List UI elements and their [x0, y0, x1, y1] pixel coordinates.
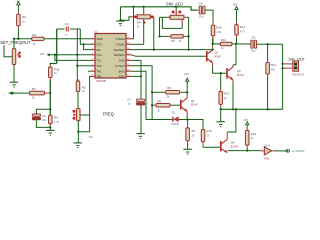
wire R5 column vertical — [76, 29, 78, 81]
svg-text:4069: 4069 — [264, 157, 270, 160]
wire terminal to R3 — [13, 92, 30, 94]
pin 6 stub U1 — [91, 65, 95, 67]
wire C3 left vertical — [56, 29, 58, 64]
pin 1 stub U1 — [91, 38, 95, 40]
svg-text:R7: R7 — [192, 129, 196, 133]
node Q4 coll bus — [235, 108, 237, 110]
svg-text:U1: U1 — [94, 30, 98, 34]
wire C6 top branch — [36, 109, 50, 114]
svg-text:D1: D1 — [172, 110, 176, 114]
resistor R35 — [49, 63, 51, 65]
svg-text:2k: 2k — [166, 95, 169, 99]
svg-text:U1:A: U1:A — [264, 143, 270, 147]
potentiometer RV3 sin-adj — [160, 16, 171, 18]
wire pin8 to freq loop — [78, 76, 91, 131]
svg-text:MO: MO — [96, 48, 100, 52]
wire R35 to R3 node — [49, 80, 51, 115]
wire U1:A output — [272, 150, 275, 152]
wire pin10 to D1 row — [131, 71, 146, 119]
ground GND5 — [136, 133, 144, 135]
wire riser to pin5 — [55, 55, 91, 61]
svg-text:BC547: BC547 — [237, 74, 245, 77]
pin 5 stub U1 — [91, 59, 95, 61]
resistor R3 horizontal — [30, 91, 45, 95]
resistor R4 horizontal — [32, 37, 44, 41]
svg-text:10u: 10u — [199, 14, 204, 18]
wire D1 row right to R15 — [187, 120, 203, 130]
wire R5 to pot — [77, 92, 79, 109]
svg-text:R2: R2 — [22, 15, 26, 19]
wire bus riser to pin16 — [131, 7, 134, 39]
svg-text:TC1: TC1 — [96, 59, 102, 63]
resistor R2 — [17, 7, 19, 12]
svg-text:4.7k: 4.7k — [240, 29, 246, 33]
svg-text:R11: R11 — [221, 38, 226, 42]
wire Q1 collector to +5V — [186, 95, 188, 98]
svg-text:SIN_ADJ: SIN_ADJ — [166, 2, 183, 7]
node conn pin1 — [281, 63, 283, 65]
pin 4 stub U1 — [91, 54, 95, 56]
wire pin9 to C7 column — [131, 75, 141, 77]
svg-text:2k: 2k — [157, 108, 160, 112]
wire conn lead2 — [283, 67, 293, 69]
capacitor C3 — [65, 27, 67, 32]
svg-text:R4: R4 — [54, 116, 58, 120]
node pot loop — [77, 131, 79, 133]
svg-text:4.7k: 4.7k — [54, 120, 60, 124]
svg-text:R3: R3 — [32, 87, 36, 91]
ground GND1 — [10, 81, 18, 83]
wire pin11 to R6R8 column — [131, 66, 152, 120]
svg-text:R14: R14 — [271, 63, 277, 67]
svg-text:2k: 2k — [178, 39, 181, 43]
ground GND4 — [74, 142, 82, 144]
svg-text:1k: 1k — [251, 136, 254, 140]
svg-text:1u: 1u — [128, 102, 132, 106]
diode D1 — [172, 117, 174, 122]
svg-text:2k: 2k — [137, 25, 140, 29]
node bus ground — [220, 108, 222, 110]
svg-text:1k: 1k — [54, 71, 58, 75]
potentiometer RV4 freq — [77, 108, 79, 110]
wire R11 to C9 — [232, 43, 251, 45]
wire Q1 emitter down — [186, 112, 188, 116]
pin 8 stub U1 — [91, 75, 95, 77]
resistor R9 horizontal — [160, 35, 169, 37]
wire C6 bottom branch — [36, 120, 50, 127]
pin 12 stub U1 — [126, 59, 131, 61]
wire SET_FREQOUT loop — [4, 45, 12, 57]
svg-text:1k: 1k — [206, 134, 209, 138]
node bus riser — [132, 6, 134, 8]
pin 16 stub U1 — [126, 38, 131, 40]
svg-text:R21: R21 — [251, 132, 257, 136]
wire D1 to junction — [179, 119, 188, 121]
svg-text:+2.4GHZ(D: +2.4GHZ(D — [292, 150, 305, 153]
node R14 top — [266, 43, 268, 45]
capacitor C6 electrolytic — [32, 114, 40, 116]
wire pin13 to Q2 base — [131, 55, 136, 57]
svg-text:SYMA1: SYMA1 — [116, 43, 126, 47]
ground GND7 — [217, 121, 225, 123]
svg-text:FSKI: FSKI — [119, 75, 125, 79]
wire C9 right — [257, 43, 283, 45]
wire R3 right lead — [44, 92, 50, 94]
wire pot column from bus — [13, 39, 15, 49]
wire conn lead1 — [283, 63, 293, 65]
wire C3 right vertical to pin2 — [80, 29, 91, 44]
svg-text:50k: 50k — [271, 68, 276, 72]
svg-text:MA: MA — [137, 21, 141, 25]
resistor R12 — [236, 12, 238, 23]
wire horizontal bus to pin1 — [14, 38, 32, 40]
resistor R21 — [246, 127, 248, 128]
svg-text:FREQ: FREQ — [103, 111, 114, 116]
pin 11 stub U1 — [126, 65, 131, 67]
svg-text:TC2: TC2 — [96, 64, 102, 68]
terminal output circle — [285, 150, 287, 153]
node R10 top — [220, 72, 222, 74]
node C6 top junction — [49, 108, 51, 110]
svg-text:R15: R15 — [206, 129, 212, 133]
svg-text:WAVEA2: WAVEA2 — [114, 48, 125, 52]
wire C7 to ground — [140, 105, 142, 134]
node conn pin2 — [281, 67, 283, 69]
wire Q2 emitter to Q3 base — [212, 63, 214, 67]
wiper RV2 dots — [18, 51, 21, 54]
wiper RV3 down stem — [181, 19, 183, 23]
svg-text:TR2: TR2 — [96, 75, 102, 79]
wire freq pot wiper loop — [80, 114, 89, 116]
node pin9 tap — [140, 75, 142, 77]
wire bottom bus — [221, 108, 283, 110]
wire sin left vertical to R9 — [159, 17, 161, 36]
node bus mark wiper — [143, 6, 145, 8]
svg-text:STO: STO — [96, 43, 101, 47]
node R14 bus — [266, 108, 268, 110]
svg-text:C9: C9 — [251, 35, 255, 39]
wire R11 row — [213, 43, 221, 45]
resistor R14 — [267, 44, 269, 60]
ground GND3 — [46, 129, 54, 131]
svg-text:R8: R8 — [157, 100, 161, 104]
svg-text:XR2206: XR2206 — [96, 79, 107, 83]
node R21 bottom — [246, 149, 248, 151]
svg-text:x: x — [3, 92, 5, 94]
svg-text:Q2: Q2 — [214, 51, 218, 55]
svg-text:2k: 2k — [32, 96, 36, 100]
svg-text:1N4148: 1N4148 — [171, 123, 180, 126]
resistor R6 horizontal — [152, 91, 163, 93]
wire pot bottom to ground — [77, 121, 79, 143]
node Q3coll — [235, 43, 237, 45]
svg-text:1n: 1n — [64, 32, 68, 36]
wiper RV3 top marks — [175, 7, 177, 12]
op-amp IC U1 XR2206 body — [95, 34, 126, 79]
svg-text:TR1: TR1 — [96, 69, 102, 73]
resistor R13 — [212, 11, 214, 23]
svg-text:+5V: +5V — [184, 72, 189, 76]
node pin2/pin3 tie — [82, 43, 84, 45]
resistor R15 — [202, 129, 204, 131]
svg-text:SYNCO: SYNCO — [115, 64, 125, 68]
transistor Q4 — [220, 141, 222, 151]
resistor R11 horizontal — [220, 42, 232, 46]
pin 13 stub U1 — [126, 54, 131, 56]
wiper RV1 — [143, 7, 145, 12]
op-amp buffer U1:A — [261, 150, 265, 152]
svg-text:C3: C3 — [65, 22, 69, 26]
svg-text:1k: 1k — [192, 134, 195, 138]
wire C3 top left — [57, 28, 65, 30]
potentiometer RV2 set-freq — [13, 48, 15, 50]
svg-text:AMSI: AMSI — [96, 37, 103, 41]
svg-text:SET_FREQOUT: SET_FREQOUT — [0, 40, 31, 45]
wire Q4 emitter to U1A — [228, 150, 261, 152]
node p14/sinR — [187, 48, 189, 50]
ground GND2 — [116, 20, 124, 22]
node Q2coll p14 — [211, 48, 213, 50]
node R6 right +5V — [186, 91, 188, 93]
svg-text:1.8k: 1.8k — [216, 30, 222, 34]
wire jog to R35 — [50, 63, 56, 66]
resistor R10 — [220, 73, 222, 89]
node R9 left — [158, 35, 160, 37]
node junction R2/bus — [17, 38, 19, 40]
svg-text:Q4: Q4 — [231, 140, 235, 144]
wire ground drop top — [120, 7, 122, 21]
capacitor C8 — [197, 9, 199, 11]
wire right drop to bus — [282, 44, 284, 109]
connector J1 SIN_OUT — [293, 61, 299, 71]
wire sin right vertical — [188, 17, 190, 49]
svg-text:1k: 1k — [82, 89, 86, 93]
wire Q2 collector up — [212, 46, 214, 50]
wire +5V to pin4 VCC — [50, 54, 91, 56]
svg-text:R10: R10 — [224, 91, 230, 95]
wire mark-pot left to gnd — [121, 17, 132, 21]
svg-text:1k: 1k — [221, 46, 224, 50]
svg-text:47k: 47k — [89, 135, 94, 139]
svg-text:GND: GND — [119, 59, 125, 63]
wire P2 to R6 node — [186, 83, 188, 93]
wire C3 top right — [70, 28, 80, 30]
node R3 junction — [49, 92, 51, 94]
svg-text:SYMA2: SYMA2 — [116, 37, 126, 41]
transistor Q2 — [206, 51, 208, 61]
transistor Q3 — [226, 68, 228, 78]
node p14/mark — [153, 48, 155, 50]
node gnd tap — [119, 19, 121, 21]
potentiometer RV1 mark — [132, 16, 138, 18]
node D1 junction — [186, 118, 188, 120]
pin 7 stub U1 — [91, 70, 95, 72]
node R6 left — [151, 91, 153, 93]
svg-text:WAVEA1: WAVEA1 — [114, 53, 125, 57]
node +5V/riser — [54, 54, 56, 56]
svg-text:R12: R12 — [240, 25, 246, 29]
svg-text:BC546: BC546 — [231, 145, 239, 148]
resistor R4b — [49, 114, 51, 116]
svg-text:+5V: +5V — [39, 52, 44, 56]
transistor Q1 — [180, 100, 182, 110]
capacitor C7 electrolytic — [137, 99, 145, 101]
wire mark wiper down to pin15 row — [143, 19, 145, 45]
svg-text:Q1: Q1 — [191, 99, 195, 103]
node R8 left — [151, 104, 153, 106]
svg-text:C8: C8 — [199, 1, 203, 5]
terminal arrow left R3 — [8, 91, 13, 95]
svg-text:TBLOCK-I2: TBLOCK-I2 — [292, 74, 305, 76]
wire Q3 emitter down — [232, 80, 234, 83]
resistor R7 — [187, 120, 189, 126]
pin 14 stub U1 — [126, 49, 131, 51]
pin 9 stub U1 — [126, 75, 131, 77]
svg-text:BIAS: BIAS — [119, 69, 125, 73]
wire pot to ground — [13, 65, 15, 83]
node R9 right — [187, 35, 189, 37]
svg-text:R9: R9 — [171, 39, 175, 43]
wire mark right to pin14 row — [153, 17, 155, 50]
wiper RV4 dots — [73, 110, 76, 113]
svg-text:10u: 10u — [42, 118, 47, 122]
resistor R5 — [77, 79, 79, 81]
svg-text:10u: 10u — [251, 49, 256, 53]
pin 2 stub U1 — [91, 43, 95, 45]
wire pin12 to C7 — [131, 60, 141, 98]
node +5V/C3left — [56, 54, 58, 56]
node bus sin wiper — [175, 6, 177, 8]
svg-text:R13: R13 — [216, 26, 222, 30]
svg-text:1: 1 — [4, 96, 6, 98]
wire top bus — [121, 7, 197, 10]
svg-text:BC547: BC547 — [191, 104, 199, 107]
wire Q3 collector up — [232, 65, 234, 67]
node junction pot/bus — [13, 38, 15, 40]
wire pin3 jog — [84, 44, 91, 49]
node Q2coll R13 — [211, 43, 213, 45]
svg-text:VCC: VCC — [96, 53, 102, 57]
wire R15 to Q4 base — [203, 146, 220, 148]
node +5V/R5col — [76, 54, 78, 56]
wire C8 right to R13 — [205, 10, 213, 25]
wire pin6 — [77, 65, 91, 67]
ground GND6 — [183, 148, 191, 150]
svg-text:BC547: BC547 — [214, 56, 222, 59]
svg-text:R6: R6 — [167, 86, 171, 90]
pin 15 stub U1 — [126, 43, 131, 45]
svg-text:1k: 1k — [224, 96, 227, 100]
wire wiper return L — [162, 17, 182, 28]
node Q3em bus — [232, 108, 234, 110]
wire pin14 long to Q2 collector column — [131, 49, 213, 51]
wire bus ground stub — [220, 109, 222, 121]
pin 3 stub U1 — [91, 49, 95, 51]
svg-text:R4: R4 — [32, 33, 36, 37]
wire D1 row left — [146, 119, 172, 121]
node R5col/pin6 — [76, 65, 78, 67]
resistor R8 horizontal — [152, 104, 154, 106]
wire pin7 stub — [88, 70, 91, 72]
svg-text:1k: 1k — [22, 19, 26, 23]
svg-text:Q3: Q3 — [237, 69, 241, 73]
node C6 bottom — [49, 126, 51, 128]
pin 10 stub U1 — [126, 70, 131, 72]
wire Q4 collector up — [226, 132, 228, 139]
svg-text:1k: 1k — [32, 42, 36, 46]
wire pin15 to mark wiper — [131, 43, 144, 45]
capacitor C9 — [251, 40, 253, 48]
